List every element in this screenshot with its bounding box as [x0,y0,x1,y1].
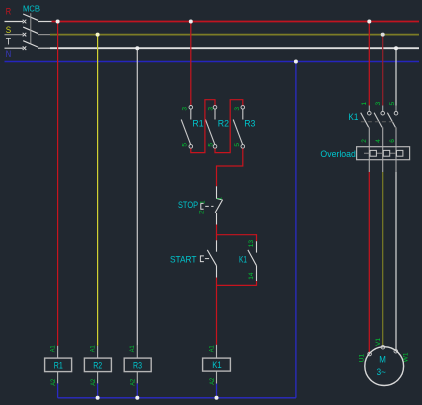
svg-text:3: 3 [182,107,189,111]
contactor K1 pole 1 [361,106,371,147]
overload wire pass 3 [395,147,397,160]
coil R3 pin A2 [130,379,137,386]
bus T [50,47,419,49]
svg-text:MCB: MCB [23,3,40,13]
wire k1 branch lower [256,281,258,286]
wire branch bottom rail [217,284,257,286]
contactor K1 label [348,112,358,122]
K1 pin 3 [375,102,382,106]
contactor K1 pole 3 [387,106,397,147]
wire k1 branch upper [256,234,258,241]
svg-text:A1: A1 [89,345,96,352]
wire start branch upper [216,234,218,240]
overload heater link [364,152,403,154]
motor pin V1 [375,338,382,346]
wire overload to motor stub 1 [368,160,370,172]
bus S [50,34,419,36]
contact R1 label [192,118,203,128]
wire K1 coil to N [216,384,218,398]
overload wire pass 1 [368,147,370,160]
STOP label [178,200,198,210]
svg-text:V1: V1 [375,338,382,346]
overload heater 1 [370,150,376,156]
wire R2 to R3 jog [215,100,243,153]
MCB pole 1 output [38,21,52,23]
coil R1 label [54,360,63,370]
wire overload to motor stub 2 [382,160,384,172]
wire motor lead U [368,172,370,353]
svg-text:3~: 3~ [377,367,386,377]
contact R1 pin top [182,107,189,111]
MCB pole 3 input stub [5,47,24,49]
wire branch to K1 coil [216,285,218,344]
MCB pole 2 contact x [23,33,27,37]
wire S drop to R2 coil [97,35,99,346]
wire control drop from R bus [190,22,192,106]
coil K1 label [212,360,222,370]
svg-text:A1: A1 [49,345,56,352]
contact R2 pin top [208,107,215,111]
MCB label [23,3,40,13]
svg-text:R1: R1 [192,118,203,128]
motor M1 [365,347,404,386]
wire R1 to R2 jog [191,100,215,153]
START label [170,255,197,265]
contact R2 pin bottom [208,143,215,147]
svg-text:5: 5 [208,143,215,147]
bus R [52,21,420,23]
MCB tie bar [30,13,32,43]
motor pin W1 [402,352,409,362]
bus N [5,61,420,63]
coil K1 pin A2 [209,378,216,385]
svg-text:K1: K1 [348,112,358,122]
svg-text:STOP: STOP [178,200,198,210]
MCB pole 2 input stub [5,34,24,36]
svg-text:U1: U1 [358,354,365,363]
coil R2 pin A1 [89,345,96,352]
MCB pole 1 input stub [5,21,24,23]
junction T bus / R3 drop [135,46,139,50]
contact R3 pin top [234,107,241,111]
svg-text:4: 4 [375,139,382,143]
overload heater 2 [383,150,389,156]
wire motor phase 3 drop [395,48,397,105]
svg-text:A2: A2 [50,379,57,386]
wire R drop to R1 coil [57,22,59,346]
svg-text:6: 6 [389,139,396,143]
STOP pin 2 [199,210,206,214]
junction S bus / motor drop 2 [381,33,385,37]
motor terminal U1 [368,352,372,356]
svg-text:R3: R3 [244,118,255,128]
contact R3 [233,106,244,149]
svg-text:R2: R2 [93,360,102,370]
svg-text:R1: R1 [54,360,63,370]
svg-text:5: 5 [389,102,396,106]
overload wire pass 2 [382,147,384,160]
motor 3~ [377,367,386,377]
contactor K1 pole 2 [374,106,384,147]
MCB pole 3 blade [23,41,38,47]
motor terminal W1 [394,349,398,353]
K1 pin 4 [375,139,382,143]
svg-text:A1: A1 [208,345,215,352]
pushbutton STOP [201,186,223,224]
MCB pole 1 blade [23,14,38,20]
coil R3 pin A1 [129,345,136,352]
svg-text:A2: A2 [209,378,216,385]
svg-text:A2: A2 [130,379,137,386]
coil R2 label [93,360,102,370]
svg-text:R: R [6,7,12,17]
wire T drop to R3 coil [136,48,138,346]
STOP pin 1 [200,200,207,204]
coil K1 [203,345,231,384]
contact R2 label [218,118,229,128]
label R phase [6,7,12,17]
coil K1 pin A1 [208,345,215,352]
svg-text:1: 1 [361,102,368,106]
K1 aux label [239,255,247,265]
K1 pin 1 [361,102,368,106]
coil R2 pin A2 [90,379,97,386]
label S phase [6,25,11,35]
contactor K1 mechanical link [361,121,396,123]
contact R3 pin bottom [234,143,241,147]
svg-text:3: 3 [375,102,382,106]
svg-text:M: M [379,354,386,364]
svg-text:2: 2 [199,210,206,214]
overload label [320,149,356,159]
overload relay box [357,147,410,160]
motor letter M [379,354,386,364]
svg-text:Overload: Overload [320,149,356,159]
coil R1 [45,346,72,384]
K1 aux pin 14 [248,272,255,280]
svg-text:3: 3 [234,107,241,111]
svg-text:3: 3 [208,107,215,111]
svg-text:2: 2 [361,139,368,143]
wire STOP to branch [216,225,218,235]
wire R1 coil to N [57,383,59,397]
contact R3 label [244,118,255,128]
label T phase [6,37,12,47]
K1 pin 5 [389,102,396,106]
svg-text:5: 5 [234,143,241,147]
wire overload to motor stub 3 [395,160,397,172]
wire motor phase 1 drop [368,22,370,106]
junction R2 coil / N rail [96,396,100,400]
coil R1 pin A1 [49,345,56,352]
K1 pin 6 [389,139,396,143]
junction K1 coil / N rail [215,396,219,400]
wire branch top rail [217,234,257,236]
svg-text:N: N [6,49,11,59]
svg-text:T: T [6,37,12,47]
junction N bus / riser [294,60,298,64]
overload heater 3 [397,150,403,156]
pushbutton START [200,240,216,277]
wire R3 to STOP [217,148,243,186]
svg-text:S: S [6,25,11,35]
svg-text:13: 13 [248,240,255,248]
svg-text:A1: A1 [129,345,136,352]
wire start branch lower [216,278,218,286]
wire N bottom rail [58,397,296,399]
MCB pole 1 contact x [23,20,27,24]
svg-text:R3: R3 [133,360,142,370]
svg-text:1: 1 [216,197,223,201]
contact K1 aux [248,241,257,281]
svg-text:14: 14 [248,272,255,280]
wire R3 coil to N [136,383,138,397]
K1 pin 2 [361,139,368,143]
svg-text:START: START [170,255,197,265]
MCB pole 2 output [38,34,50,36]
coil R3 [124,346,151,384]
junction R bus / control drop [189,20,193,24]
svg-text:A2: A2 [90,379,97,386]
MCB pole 2 blade [23,27,38,33]
junction R bus / motor drop 1 [367,20,371,24]
wire N right riser [295,62,297,398]
contact R2 [205,106,216,149]
MCB pole 3 contact x [23,46,27,50]
coil R2 [84,346,111,384]
label N neutral [6,49,11,59]
wire R2 coil to N [97,383,99,397]
junction S bus / R2 drop [96,33,100,37]
svg-text:K1: K1 [212,360,222,370]
wire motor lead V [382,172,384,347]
wire motor lead W [395,172,397,351]
svg-text:1: 1 [200,200,207,204]
svg-text:5: 5 [182,143,189,147]
svg-text:K1: K1 [239,255,247,265]
contact R1 pin bottom [182,143,189,147]
junction T bus / motor drop 3 [394,46,398,50]
contact R1 [181,106,192,149]
K1 aux pin 13 [248,240,255,248]
MCB pole 3 output [38,47,50,49]
coil R3 label [133,360,142,370]
svg-text:R2: R2 [218,118,229,128]
wire motor phase 2 drop [382,35,384,106]
motor terminal V1 [381,345,385,349]
coil R1 pin A2 [50,379,57,386]
motor pin U1 [358,354,365,363]
junction R bus / R1 drop [56,20,60,24]
STOP pin 1b mark [216,197,223,201]
junction R3 coil / N rail [135,396,139,400]
